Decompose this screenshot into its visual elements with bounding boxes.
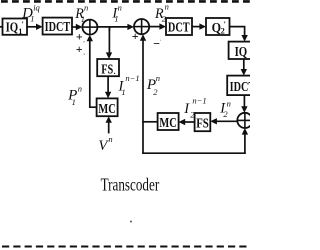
svg-text:,: , — [83, 50, 85, 56]
svg-text:,: , — [83, 38, 85, 44]
svg-text:FS: FS — [196, 117, 209, 132]
label R2n — [154, 2, 169, 24]
block FS1 — [97, 59, 119, 77]
label Vn — [98, 134, 112, 154]
wire P2 vertical up into A2 with arrow — [140, 34, 146, 154]
svg-text:DCT: DCT — [168, 21, 190, 36]
svg-text:1: 1 — [72, 97, 76, 107]
block MC1 — [97, 98, 118, 116]
label D1iq — [21, 3, 40, 24]
block IQ1 — [3, 19, 28, 36]
adder A2 — [134, 19, 149, 34]
wire IQ2 to IDCT2 with arrow — [241, 59, 247, 76]
svg-text:n: n — [78, 83, 82, 93]
svg-text:n: n — [84, 2, 88, 12]
svg-text:1: 1 — [114, 14, 118, 24]
svg-text:iq: iq — [33, 3, 40, 13]
adder A1 — [82, 20, 97, 35]
label I2n — [219, 99, 231, 120]
wire DCT to Q2 with arrow — [192, 23, 206, 29]
wire Vn up into MC1 bottom with arrow — [106, 116, 112, 133]
svg-text:+: + — [132, 29, 139, 43]
svg-text:n: n — [108, 134, 112, 144]
dashed bottom border — [2, 245, 250, 247]
block IDCT2 (cut at right edge) — [227, 76, 257, 96]
wire FS1 to MC1 with arrow — [105, 76, 111, 98]
wire A2 to DCT with arrow — [149, 23, 166, 29]
wire IQ1 to IDCT with arrow — [27, 24, 43, 30]
label I1n-1 — [118, 73, 140, 97]
svg-text:MC: MC — [159, 116, 176, 131]
svg-text:IQ: IQ — [6, 20, 19, 35]
svg-text:+: + — [76, 42, 83, 56]
adder A3 (cut at right edge) — [237, 113, 252, 128]
svg-text:FS: FS — [101, 62, 113, 77]
svg-text:.: . — [114, 67, 116, 76]
svg-text:IDCT: IDCT — [45, 20, 71, 35]
dashed top border — [1, 0, 250, 3]
svg-text:1: 1 — [121, 87, 125, 97]
wire MC1 left then up into A1 bottom with arrow (P1 feedback) — [87, 35, 97, 108]
svg-text:IDCT: IDCT — [230, 80, 250, 95]
svg-text:2: 2 — [153, 87, 158, 97]
label I1n — [111, 2, 121, 23]
block DCT — [166, 18, 192, 36]
stray dot — [130, 221, 132, 223]
svg-text:I: I — [183, 101, 190, 117]
wire A3 to FS2 with arrow — [210, 118, 237, 124]
wire A1 to adder A2 with arrow — [97, 24, 134, 30]
wire up into A3 bottom with arrow — [242, 128, 248, 154]
wire Q2 right then down into IQ2 with arrow — [230, 27, 248, 42]
wire P2 bottom horizontal — [142, 152, 246, 154]
block Q2 — [206, 18, 230, 36]
wire input stub into IQ1 — [0, 26, 3, 28]
svg-text:n: n — [165, 2, 169, 12]
node branch junction on I1n wire — [108, 27, 110, 31]
svg-text:n−1: n−1 — [192, 96, 206, 106]
svg-text:.: . — [160, 37, 162, 43]
label P2n — [146, 73, 160, 97]
block MC2 — [158, 113, 179, 131]
svg-text:Q: Q — [212, 21, 221, 36]
svg-text:': ' — [224, 20, 226, 29]
label R1n — [74, 2, 88, 23]
label P1n — [67, 83, 82, 107]
svg-text:2: 2 — [223, 109, 228, 119]
svg-text:n: n — [156, 73, 160, 83]
wire branch down into FS1 with arrow — [106, 27, 112, 59]
svg-text:n−1: n−1 — [125, 73, 139, 83]
block FS2 — [195, 113, 211, 132]
label I2n-1 — [183, 96, 206, 120]
wire FS2 to MC2 with arrow — [179, 119, 195, 125]
svg-text:2: 2 — [162, 13, 167, 23]
svg-text:2: 2 — [190, 110, 195, 120]
svg-text:IQ: IQ — [235, 45, 248, 60]
wire MC2 to P2 feedback line — [142, 121, 157, 123]
svg-text:1: 1 — [30, 14, 34, 24]
svg-text:MC: MC — [98, 102, 115, 117]
wire IDCT2 to adder A3 with arrow — [241, 95, 247, 113]
wire IDCT1 to adder A1 with arrow — [72, 24, 82, 30]
block IQ2 (cut at right edge) — [229, 42, 257, 60]
block IDCT1 — [43, 18, 72, 36]
svg-text:n: n — [118, 2, 122, 12]
svg-text:n: n — [227, 99, 231, 109]
svg-text:Transcoder: Transcoder — [101, 174, 160, 194]
